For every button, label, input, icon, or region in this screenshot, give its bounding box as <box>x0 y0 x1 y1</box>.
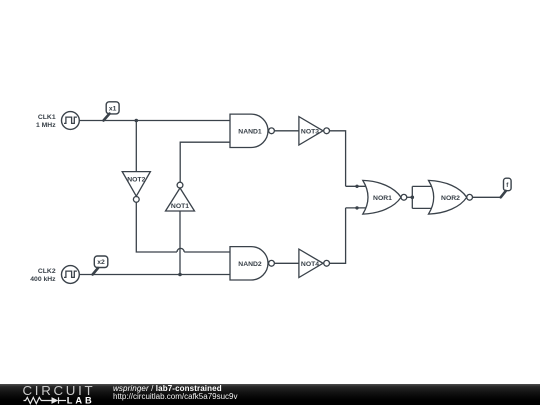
svg-text:NAND1: NAND1 <box>238 128 262 135</box>
svg-text:NOR2: NOR2 <box>441 195 460 202</box>
svg-text:CLK1: CLK1 <box>38 114 56 121</box>
svg-text:x2: x2 <box>97 259 105 266</box>
svg-text:f: f <box>506 182 509 189</box>
svg-text:x1: x1 <box>109 105 117 112</box>
svg-text:1 MHz: 1 MHz <box>36 122 56 129</box>
svg-text:NOT2: NOT2 <box>127 177 145 184</box>
svg-text:NOT1: NOT1 <box>171 203 189 210</box>
svg-text:CLK2: CLK2 <box>38 268 56 275</box>
svg-text:NAND2: NAND2 <box>238 261 262 268</box>
svg-text:NOT4: NOT4 <box>301 261 319 268</box>
svg-text:400 kHz: 400 kHz <box>30 276 56 283</box>
svg-text:NOT3: NOT3 <box>301 128 319 135</box>
svg-text:NOR1: NOR1 <box>373 195 392 202</box>
